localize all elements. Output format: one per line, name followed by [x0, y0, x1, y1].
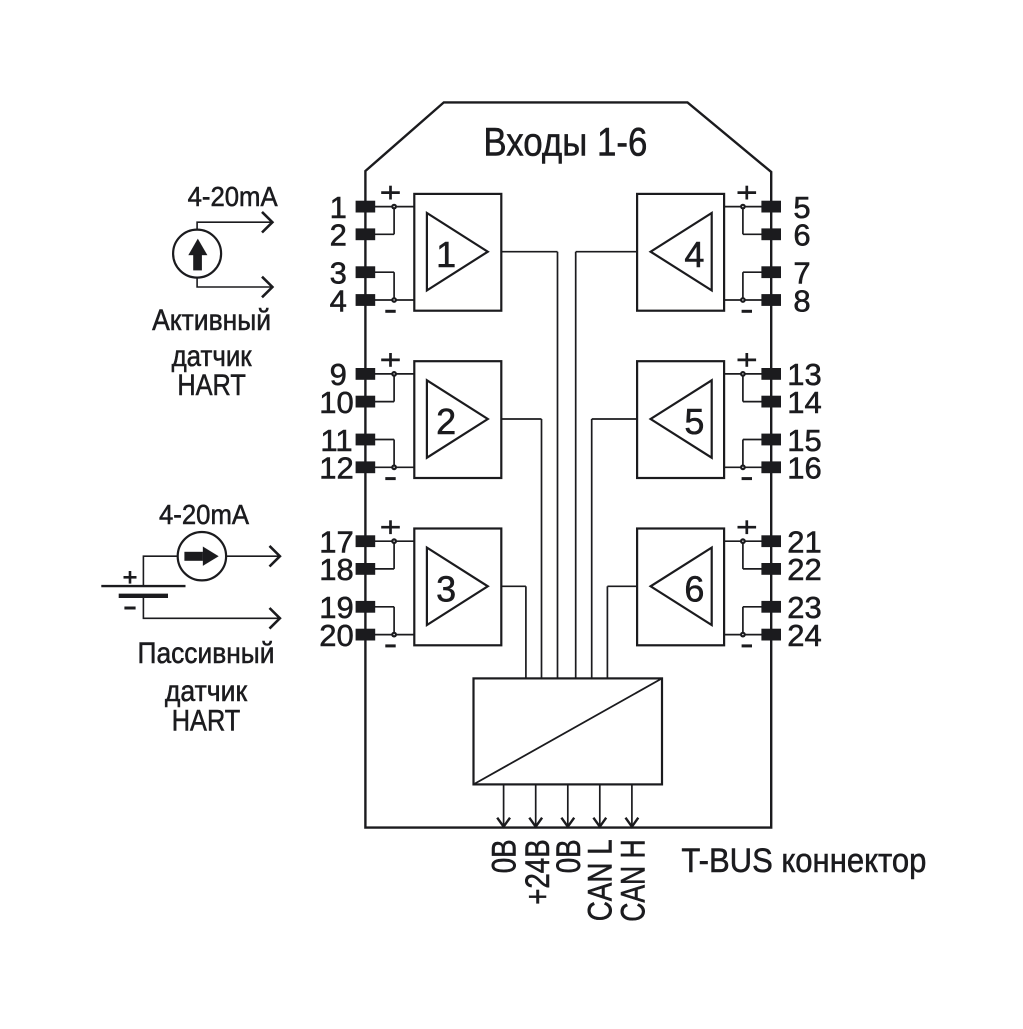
- svg-text:CAN H: CAN H: [615, 839, 653, 922]
- svg-text:20: 20: [319, 618, 353, 653]
- svg-text:1: 1: [436, 234, 456, 275]
- svg-text:18: 18: [319, 552, 353, 587]
- svg-text:4: 4: [330, 283, 347, 318]
- svg-text:Входы 1-6: Входы 1-6: [483, 121, 647, 165]
- svg-text:16: 16: [787, 451, 821, 486]
- svg-text:2: 2: [330, 218, 347, 253]
- svg-text:24: 24: [787, 618, 821, 653]
- svg-text:Пассивный: Пассивный: [138, 637, 275, 670]
- svg-text:3: 3: [436, 568, 456, 609]
- svg-text:6: 6: [793, 218, 810, 253]
- svg-text:Активный: Активный: [152, 304, 271, 337]
- svg-text:HART: HART: [177, 369, 246, 402]
- svg-text:12: 12: [319, 451, 353, 486]
- svg-text:5: 5: [684, 401, 704, 442]
- svg-text:4-20mA: 4-20mA: [188, 181, 278, 212]
- svg-text:4: 4: [684, 234, 704, 275]
- svg-text:10: 10: [319, 385, 353, 420]
- svg-text:14: 14: [787, 385, 821, 420]
- svg-text:2: 2: [436, 401, 456, 442]
- svg-text:датчик: датчик: [165, 675, 248, 708]
- svg-text:HART: HART: [172, 705, 241, 738]
- svg-text:T-BUS коннектор: T-BUS коннектор: [681, 842, 926, 880]
- svg-text:6: 6: [684, 568, 704, 609]
- svg-text:8: 8: [793, 283, 810, 318]
- svg-text:4-20mA: 4-20mA: [159, 499, 249, 530]
- svg-text:22: 22: [787, 552, 821, 587]
